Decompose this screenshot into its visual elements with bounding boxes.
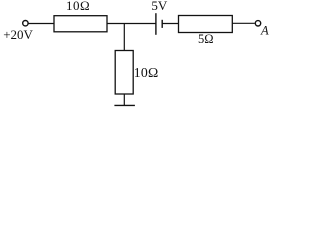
resistor R3 5Ω [179,16,233,33]
resistor R1 10Ω [54,16,107,32]
svg-text:5Ω: 5Ω [198,32,214,46]
battery V1 5V short plate [161,20,163,28]
terminal A [255,21,260,26]
svg-text:10Ω: 10Ω [134,65,159,80]
wire [162,23,178,25]
svg-text:+20V: +20V [3,27,33,42]
svg-text:5V: 5V [151,0,168,13]
wire [29,23,55,25]
resistor R2 10Ω (vertical) [115,51,133,95]
node junction [123,24,125,51]
svg-text:10Ω: 10Ω [66,0,90,13]
svg-text:A: A [260,24,269,38]
terminal +20V [23,21,28,26]
wire [123,94,125,105]
wire [107,23,156,25]
battery V1 5V long plate [155,13,157,35]
wire [232,22,255,24]
ground [114,104,134,106]
